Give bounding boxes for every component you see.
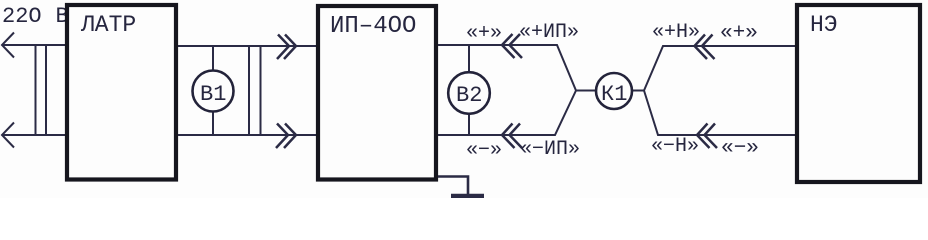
block ЛАТР — [67, 5, 176, 180]
svg-text:«−»: «−» — [721, 137, 759, 160]
svg-text:22О: 22О — [2, 4, 42, 29]
svg-text:«+Н»: «+Н» — [652, 21, 700, 44]
connector contacts left (plug symbol) — [36, 45, 47, 135]
svg-text:«−Н»: «−Н» — [651, 135, 699, 158]
svg-text:«−ИП»: «−ИП» — [520, 138, 580, 161]
svg-text:ИП–4ОО: ИП–4ОО — [330, 13, 416, 40]
wire mains bottom with arrow — [2, 123, 65, 148]
svg-text:В1: В1 — [200, 82, 226, 107]
ground of ИП-400 — [438, 177, 484, 197]
block ИП-400 — [318, 6, 436, 180]
chevrons on +Н wire — [695, 35, 715, 60]
chevrons into ИП top — [277, 35, 296, 60]
wire ИП to К1 top — [438, 45, 596, 91]
svg-text:ЛАТР: ЛАТР — [80, 12, 136, 38]
connector contacts middle (plug symbol) — [249, 46, 261, 135]
wire ЛАТР to ИП top — [178, 45, 316, 47]
svg-text:НЭ: НЭ — [810, 12, 838, 38]
wire ИП to К1 bottom — [438, 91, 576, 136]
chevrons on -ИП wire — [502, 124, 522, 149]
svg-text:«+»: «+» — [720, 22, 758, 45]
chevrons into ИП bottom — [276, 124, 296, 149]
voltmeter В2 — [448, 46, 490, 136]
svg-text:«−»: «−» — [466, 139, 502, 162]
wire К1 to НЭ bottom — [644, 91, 795, 136]
wire ЛАТР to ИП bottom — [178, 134, 316, 136]
svg-text:«+ИП»: «+ИП» — [519, 21, 579, 44]
chevrons on +ИП wire — [502, 34, 522, 58]
svg-text:«+»: «+» — [466, 22, 502, 45]
svg-text:В2: В2 — [456, 83, 482, 108]
chevrons on -Н wire — [697, 124, 717, 149]
block НЭ — [797, 5, 920, 182]
switch К1 — [576, 73, 644, 109]
wire К1 to НЭ top — [644, 46, 795, 91]
svg-text:К1: К1 — [601, 82, 627, 107]
wire mains top with arrow — [2, 33, 65, 58]
voltmeter В1 — [193, 46, 234, 135]
